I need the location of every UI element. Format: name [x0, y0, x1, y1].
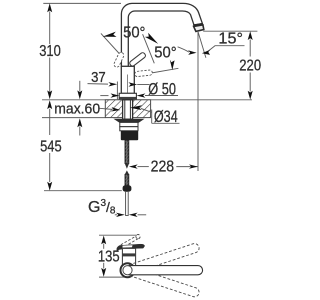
svg-text:Ø34: Ø34: [154, 108, 178, 126]
countertop top extension line: [42, 99, 252, 101]
dimension 135 extension lines: [99, 235, 137, 277]
dashed swivel tube up: [129, 242, 200, 273]
svg-text:228: 228: [151, 158, 175, 175]
mousseur (spout outlet): [193, 24, 203, 26]
washer / deflector under counter: [114, 119, 143, 122]
dimension 228: [138, 166, 149, 168]
riser line inside body: [127, 75, 129, 94]
faucet body: [121, 66, 134, 93]
body (side view): [122, 248, 135, 265]
dashed swivel tube down: [129, 267, 200, 298]
braided hose upper part: [125, 140, 129, 163]
dimension 310: [43, 3, 121, 93]
base flange: [119, 93, 136, 99]
braided hose lower part: [125, 170, 129, 174]
svg-text:Ø 50: Ø 50: [148, 80, 176, 99]
connection pipe G3/8: [126, 192, 129, 216]
countertop left hatched block: [105, 100, 122, 118]
svg-text:max.60: max.60: [54, 101, 100, 118]
swivel hub ring: [121, 263, 135, 277]
solid lever (side view, lowered): [117, 244, 145, 250]
spout tube (riser + top run + 15deg outlet): [121, 3, 202, 66]
washer band 1: [120, 122, 138, 126]
svg-text:310: 310: [39, 43, 61, 60]
solid spout tube: [129, 266, 203, 275]
label diameter 34 with leader: [141, 109, 152, 113]
threaded shank through counter: [123, 100, 133, 119]
svg-text:50°: 50°: [154, 44, 176, 61]
dashed raised lever position: [121, 235, 140, 247]
solid lever: [129, 52, 147, 67]
svg-text:15°: 15°: [218, 30, 243, 47]
dashed lever (right horizontal position): [134, 70, 152, 77]
hub inner circle (tube end): [123, 266, 132, 275]
dimension diameter 50: [100, 95, 108, 97]
svg-text:50°: 50°: [123, 24, 145, 41]
washer band 2: [120, 127, 138, 131]
svg-text:545: 545: [40, 139, 62, 156]
svg-text:220: 220: [239, 58, 261, 75]
hose end fitting: [123, 185, 132, 191]
dimension 545: [44, 109, 122, 191]
mounting nut: [121, 131, 138, 141]
dimension 220: [203, 30, 257, 32]
svg-text:135: 135: [98, 248, 120, 265]
max.60 vertical dimension arrows: [79, 81, 81, 92]
dimension 135 arrows: [101, 236, 106, 245]
countertop bottom extension line: [42, 117, 105, 119]
angle 15 deg annotation: [197, 31, 199, 171]
dashed lever (left position): [113, 52, 125, 69]
countertop right hatched block: [133, 100, 151, 118]
